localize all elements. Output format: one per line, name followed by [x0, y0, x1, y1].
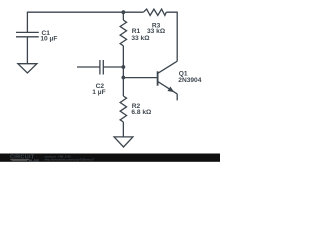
wire C1 to ground — [26, 37, 28, 64]
node junction top rail / R1 — [121, 10, 125, 14]
capacitor C2 — [100, 60, 103, 75]
wire C2 left lead — [77, 66, 100, 68]
resistor R3 — [143, 9, 166, 15]
wire R3 right to collector drop — [166, 12, 177, 61]
svg-text:▸LAB: ▸LAB — [28, 158, 39, 162]
wire C2 right lead to node — [103, 66, 123, 68]
svg-text:http://circuitlab.com/csqe7a2h: http://circuitlab.com/csqe7a2hmsc7/ — [45, 157, 95, 161]
wire R1 top stem — [122, 12, 124, 20]
svg-text:10 µF: 10 µF — [40, 36, 57, 43]
ground under R2 — [114, 137, 133, 147]
wire top rail from C1 to R3 left — [27, 12, 143, 32]
svg-text:33 kΩ: 33 kΩ — [147, 28, 166, 35]
svg-text:33 kΩ: 33 kΩ — [131, 35, 150, 42]
resistor R2 — [120, 96, 126, 122]
footer watermark bar — [0, 154, 220, 162]
svg-text:1 µF: 1 µF — [92, 89, 105, 96]
wire R1 bottom to R2 top — [122, 46, 124, 96]
node junction C2 / R1-R2 — [121, 65, 125, 69]
resistor R1 — [120, 20, 126, 46]
ground under C1 — [18, 64, 37, 73]
node junction base / R1-R2 — [121, 76, 125, 80]
transistor Q1 — [158, 61, 178, 100]
capacitor C1 — [16, 32, 39, 36]
svg-text:6.8 kΩ: 6.8 kΩ — [131, 109, 152, 116]
footer CircuitLab logo — [10, 155, 39, 163]
wire R2 bottom to ground — [122, 122, 124, 137]
svg-text:2N3904: 2N3904 — [178, 77, 201, 84]
wire base of Q1 — [123, 77, 157, 79]
